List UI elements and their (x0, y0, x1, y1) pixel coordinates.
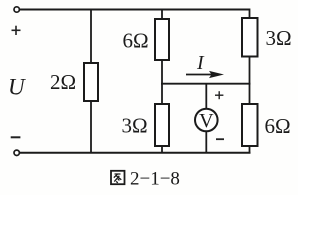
terminal top-left (14, 7, 19, 12)
terminal bottom-left (14, 150, 19, 155)
svg-text:3Ω: 3Ω (266, 26, 292, 50)
wire middle vertical right (node B) (249, 57, 251, 105)
caption glyph 图 (111, 171, 125, 184)
resistor 6Ω (bottom-right) (242, 104, 258, 146)
bottom wire (20, 152, 251, 154)
label + (voltmeter) (215, 91, 223, 99)
svg-text:U: U (8, 75, 26, 100)
resistor 6Ω (top) (155, 19, 169, 60)
svg-text:V: V (199, 110, 214, 132)
wire middle vertical left (node A) (161, 60, 163, 104)
svg-text:2Ω: 2Ω (50, 70, 76, 94)
wire 2Ω branch bottom (90, 101, 92, 153)
svg-text:3Ω: 3Ω (122, 113, 148, 137)
wire voltmeter top (205, 83, 207, 109)
wire 6Ω branch bottom-right (249, 146, 251, 153)
svg-text:2−1−8: 2−1−8 (130, 168, 180, 189)
label − (voltmeter) (216, 138, 224, 140)
label + (source) (12, 26, 21, 35)
current arrow I (186, 71, 224, 78)
wire voltmeter bottom (205, 131, 207, 153)
wire 6Ω branch top (161, 9, 163, 19)
resistor 3Ω (bottom-left) (155, 104, 169, 146)
svg-text:6Ω: 6Ω (123, 28, 149, 52)
svg-text:6Ω: 6Ω (265, 114, 291, 138)
label − (source) (11, 136, 21, 138)
wire 3Ω branch bottom (161, 146, 163, 153)
svg-text:I: I (196, 52, 205, 74)
wire 3Ω branch top-right (249, 9, 251, 19)
resistor 2Ω (84, 63, 98, 101)
voltmeter V (195, 109, 218, 132)
top wire (20, 9, 250, 11)
wire middle horizontal (161, 83, 251, 85)
wire 2Ω branch top (90, 9, 92, 63)
resistor 3Ω (top-right) (242, 18, 258, 57)
